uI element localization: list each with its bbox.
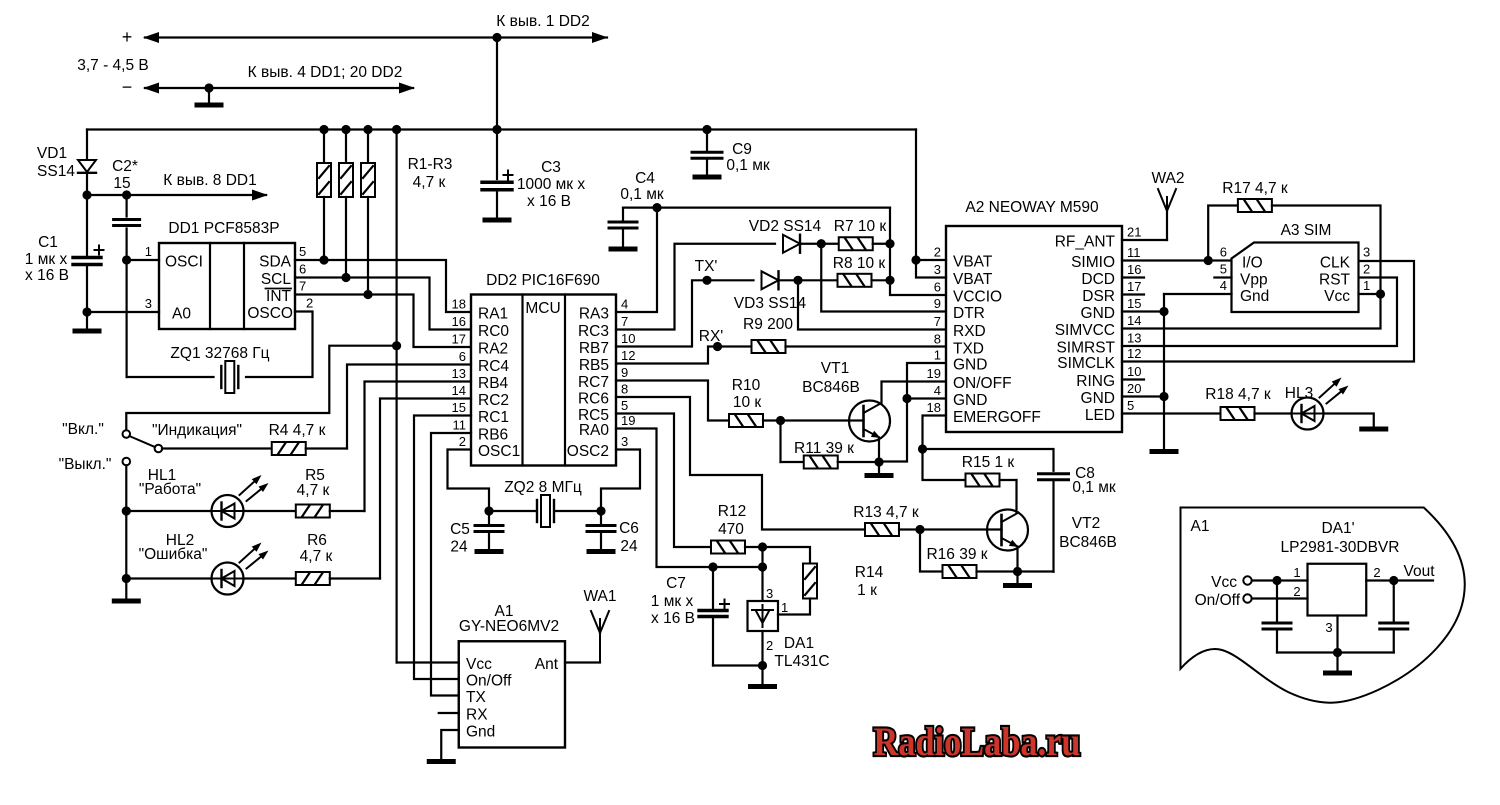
net SDA to DD2 RA1 [295, 255, 471, 312]
svg-text:C6: C6 [619, 520, 639, 537]
A1 pin texts [466, 656, 559, 741]
svg-text:1 мк х: 1 мк х [651, 593, 694, 610]
capacitor C9 [692, 130, 770, 178]
net SCL to DD2 RC0 [295, 273, 471, 330]
wire node to C8 [923, 449, 1054, 471]
A2 DCD stub [1122, 276, 1144, 278]
svg-text:INT: INT [266, 288, 292, 305]
svg-text:DD1 PCF8583P: DD1 PCF8583P [168, 220, 279, 237]
HL3 ground [1324, 414, 1386, 430]
resistor R2 [339, 130, 353, 278]
DD1 pin numbers [145, 244, 313, 311]
svg-text:3: 3 [1325, 620, 1332, 635]
net OSCO to ZQ1 [246, 312, 313, 378]
svg-text:10: 10 [1127, 364, 1141, 379]
svg-text:C9: C9 [732, 141, 752, 158]
wire SIMCLK to SIM CLK [1122, 261, 1414, 362]
resistor R8 [833, 255, 890, 287]
svg-text:VD3 SS14: VD3 SS14 [734, 295, 807, 312]
IC DD1 PCF8583P box [159, 220, 295, 329]
svg-text:Ant: Ant [535, 656, 559, 673]
inset Vcc terminal [1211, 574, 1307, 591]
svg-text:8: 8 [934, 332, 941, 347]
main VCC rail [87, 125, 916, 134]
svg-text:RA3: RA3 [579, 306, 609, 323]
svg-text:RST: RST [1319, 272, 1351, 289]
svg-text:6: 6 [459, 349, 466, 364]
svg-text:1: 1 [145, 244, 152, 259]
VT1 collector to ON/OFF [882, 382, 947, 404]
resistor R4 [162, 422, 347, 455]
inset input capacitor [1263, 581, 1291, 653]
wire RC7 to R10 [616, 381, 729, 421]
inset ground net [1277, 616, 1394, 674]
wire DD2 RC1 to A1 OnOff [414, 416, 471, 680]
svg-text:GND: GND [953, 392, 987, 409]
svg-text:RB6: RB6 [478, 427, 508, 444]
svg-text:13: 13 [452, 366, 466, 381]
VT2 collector to R15 [1015, 480, 1017, 513]
switch SA Vkl/Vykl [59, 421, 242, 473]
svg-text:1 мк х: 1 мк х [25, 251, 68, 268]
wire to switch Vkl [126, 346, 396, 430]
node TX' [695, 258, 718, 285]
svg-text:HL3: HL3 [1285, 385, 1313, 402]
svg-text:DD2 PIC16F690: DD2 PIC16F690 [486, 272, 600, 289]
svg-text:RF_ANT: RF_ANT [1055, 234, 1116, 251]
svg-text:R8 10 к: R8 10 к [833, 255, 886, 272]
svg-text:15: 15 [113, 175, 130, 192]
wire R5 to DD2 RB4 [365, 382, 472, 512]
A1 Gnd wire and ground [429, 730, 459, 762]
LED HL1 [126, 467, 268, 527]
svg-text:0,1 мк: 0,1 мк [1072, 479, 1116, 496]
power minus rail arrow to DD1 pin4 DD2 pin20 [122, 64, 415, 97]
IC DA1 TL431 box [748, 567, 830, 670]
svg-text:R1-R3: R1-R3 [408, 156, 453, 173]
svg-text:2: 2 [1363, 262, 1370, 277]
svg-text:2: 2 [1293, 584, 1300, 599]
svg-text:К выв. 1 DD2: К выв. 1 DD2 [496, 13, 590, 30]
svg-text:RC0: RC0 [478, 323, 509, 340]
wire OSCI to ZQ1 [127, 260, 214, 377]
DD1 pin3 A0 wire [87, 311, 159, 313]
A3 Vpp stub [1214, 276, 1231, 278]
node wire K vyv 8 DD1 [82, 172, 268, 201]
resistor R18 [1205, 386, 1291, 420]
DD1 pin1 OSCI wire [122, 255, 159, 264]
wire RA0 to C7 node [616, 429, 767, 572]
ground on minus rail [197, 83, 221, 105]
resistor R17 [1208, 180, 1380, 294]
resistor R13 [853, 504, 1001, 536]
wire SIM Gnd to GND riser [1164, 293, 1232, 295]
svg-text:EMERGOFF: EMERGOFF [953, 409, 1041, 426]
svg-text:R18 4,7 к: R18 4,7 к [1205, 386, 1271, 403]
crystal ZQ1 [170, 345, 269, 393]
svg-text:RC6: RC6 [578, 391, 609, 408]
transistor VT1 [802, 360, 890, 442]
svg-text:ZQ1 32768 Гц: ZQ1 32768 Гц [170, 345, 269, 362]
supply riser to switch and GPS Vcc [392, 130, 401, 663]
svg-text:R13 4,7 к: R13 4,7 к [853, 504, 919, 521]
wire OSC2 to ZQ2 [601, 450, 640, 512]
svg-text:A1: A1 [1191, 518, 1210, 535]
antenna WA1 [565, 588, 617, 663]
IC DD2 PIC16F690 box [471, 272, 616, 466]
svg-text:GND: GND [1081, 305, 1115, 322]
wire RC5 to R12 [616, 414, 711, 548]
svg-text:4: 4 [621, 297, 628, 312]
svg-text:RXD: RXD [953, 323, 986, 340]
svg-text:10 к: 10 к [733, 394, 762, 411]
svg-text:I/O: I/O [1242, 255, 1263, 272]
resistor R16 [920, 530, 1018, 579]
A3 pin texts [1240, 255, 1351, 306]
svg-text:BC846B: BC846B [802, 379, 860, 396]
svg-text:LED: LED [1085, 407, 1115, 424]
resistor R14 [803, 564, 884, 600]
wire RA3 riser [616, 208, 657, 312]
svg-text:Gnd: Gnd [466, 724, 495, 741]
capacitor C4 [609, 170, 664, 249]
svg-text:VBAT: VBAT [953, 254, 993, 271]
svg-text:К выв. 8 DD1: К выв. 8 DD1 [163, 172, 257, 189]
resistor R9 [743, 316, 946, 353]
svg-text:VT2: VT2 [1072, 515, 1100, 532]
svg-text:6: 6 [1220, 245, 1227, 260]
switch common rail [114, 465, 138, 601]
svg-text:C7: C7 [666, 575, 686, 592]
svg-text:CLK: CLK [1320, 255, 1351, 272]
svg-text:OSCI: OSCI [165, 254, 203, 271]
svg-text:0,1 мк: 0,1 мк [726, 157, 770, 174]
svg-text:C2*: C2* [112, 158, 138, 175]
wire LED pin to R18 [1122, 412, 1221, 414]
module A2 NEOWAY M590 box [946, 199, 1122, 432]
svg-text:RX: RX [466, 707, 488, 724]
svg-text:3: 3 [766, 586, 773, 601]
svg-text:1: 1 [1363, 278, 1370, 293]
wire RXD riser [798, 280, 946, 329]
svg-text:MCU: MCU [525, 300, 560, 317]
A3 pin numbers [1220, 245, 1370, 294]
svg-text:9: 9 [934, 296, 941, 311]
svg-text:VD1: VD1 [37, 145, 67, 162]
power plus rail arrow to DD2 pin 1 [122, 13, 608, 47]
wire VD3 to R8 [779, 276, 838, 285]
resistor R12 [711, 503, 767, 554]
svg-text:R14: R14 [855, 564, 884, 581]
svg-text:R16 39 к: R16 39 к [926, 546, 987, 563]
label battery voltage [77, 57, 149, 74]
A2 DSR stub [1122, 293, 1144, 295]
svg-text:4: 4 [934, 383, 941, 398]
svg-text:24: 24 [450, 539, 468, 556]
svg-text:х 16 В: х 16 В [527, 193, 571, 210]
svg-text:RB7: RB7 [579, 340, 609, 357]
svg-text:VD2 SS14: VD2 SS14 [749, 218, 822, 235]
wire DD2 RB6 to A1 TX [431, 433, 471, 696]
A2 RING stub [1122, 378, 1144, 380]
svg-text:RadioLaba.ru: RadioLaba.ru [874, 719, 1081, 764]
svg-text:DA1': DA1' [1321, 520, 1354, 537]
svg-text:C3: C3 [541, 159, 561, 176]
svg-text:VBAT: VBAT [953, 271, 993, 288]
IC DA1' LP2981 box [1281, 520, 1400, 616]
svg-text:ZQ2 8 МГц: ZQ2 8 МГц [504, 479, 582, 496]
svg-text:К выв. 4 DD1; 20 DD2: К выв. 4 DD1; 20 DD2 [248, 64, 403, 81]
wire DA1 pin2 ground [713, 631, 775, 687]
diode VD2 [749, 218, 822, 253]
svg-text:17: 17 [1127, 279, 1141, 294]
svg-text:"Работа": "Работа" [139, 481, 201, 498]
VT2 emitter ground [1006, 547, 1054, 586]
svg-text:0,1 мк: 0,1 мк [620, 186, 664, 203]
capacitor C2 [112, 158, 140, 260]
svg-text:18: 18 [927, 400, 941, 415]
svg-text:RC3: RC3 [578, 323, 609, 340]
svg-text:A3 SIM: A3 SIM [1281, 222, 1332, 239]
svg-text:RX': RX' [699, 328, 724, 345]
inset Vout wire [1366, 563, 1435, 585]
LED HL3 [1285, 378, 1349, 430]
svg-text:19: 19 [621, 413, 635, 428]
wire DA1 pin1 to R14 [778, 599, 810, 615]
svg-text:R12: R12 [718, 503, 746, 520]
capacitor C3 electrolytic [482, 130, 585, 221]
svg-text:C1: C1 [38, 234, 58, 251]
svg-text:3: 3 [1363, 245, 1370, 260]
wire rail to VD1 [86, 130, 88, 160]
svg-text:9: 9 [621, 365, 628, 380]
antenna WA2 [1122, 170, 1185, 240]
svg-text:5: 5 [1127, 398, 1134, 413]
svg-text:DA1: DA1 [784, 635, 814, 652]
svg-text:3: 3 [934, 262, 941, 277]
capacitor C6 [587, 511, 639, 555]
svg-text:SIMIO: SIMIO [1071, 254, 1115, 271]
svg-text:21: 21 [1127, 225, 1141, 240]
svg-text:24: 24 [620, 538, 638, 555]
svg-text:R11 39 к: R11 39 к [794, 440, 854, 457]
resistor R6 [244, 532, 381, 585]
inset frame A1 [1181, 508, 1465, 703]
svg-text:20: 20 [1127, 381, 1141, 396]
svg-text:C5: C5 [450, 521, 470, 538]
svg-text:14: 14 [1127, 313, 1141, 328]
diode VD1 [37, 145, 96, 180]
svg-text:"Выкл.": "Выкл." [59, 456, 112, 473]
wire R6 to DD2 RC2 [380, 399, 471, 579]
LED HL2 [126, 532, 268, 595]
capacitor C7 electrolytic [651, 567, 729, 666]
svg-text:"Вкл.": "Вкл." [62, 421, 104, 438]
DA1 pin numbers [766, 586, 788, 653]
svg-text:2: 2 [1373, 565, 1380, 580]
resistor R1 [317, 130, 331, 261]
wire EMERGOFF riser [918, 416, 946, 454]
DD2 pin texts and numbers [452, 297, 636, 461]
svg-text:SIMVCC: SIMVCC [1055, 322, 1115, 339]
svg-text:On/Off: On/Off [1195, 592, 1241, 609]
crystal ZQ2 [484, 479, 605, 527]
svg-text:1 к: 1 к [857, 582, 877, 599]
VCCIO riser [885, 208, 946, 295]
svg-text:5: 5 [621, 398, 628, 413]
svg-text:A2 NEOWAY M590: A2 NEOWAY M590 [965, 199, 1099, 216]
DD1 pin texts [165, 254, 293, 323]
svg-text:2: 2 [459, 434, 466, 449]
svg-text:19: 19 [927, 366, 941, 381]
wire RB5 to RX' [616, 347, 752, 364]
svg-text:4,7 к: 4,7 к [300, 548, 333, 565]
inset pin numbers [1293, 565, 1380, 635]
svg-text:13: 13 [1127, 331, 1141, 346]
capacitor C8 [1039, 465, 1116, 572]
svg-text:GND: GND [1081, 390, 1115, 407]
wire DTR riser [821, 244, 946, 312]
svg-text:4,7 к: 4,7 к [413, 174, 446, 191]
svg-text:A0: A0 [172, 306, 191, 323]
svg-text:RB4: RB4 [478, 375, 509, 392]
svg-text:11: 11 [453, 418, 467, 433]
svg-text:16: 16 [452, 314, 466, 329]
svg-text:1: 1 [1293, 565, 1300, 580]
svg-text:7: 7 [299, 279, 306, 294]
svg-text:11: 11 [1127, 245, 1141, 260]
svg-text:14: 14 [452, 383, 466, 398]
svg-text:OSC2: OSC2 [567, 443, 609, 460]
A2 pin texts and numbers [927, 225, 1142, 427]
svg-text:+: + [122, 27, 133, 47]
wire RC3 to VD2 [616, 244, 775, 330]
wire SIMVCC to SIM Vcc [1122, 294, 1381, 329]
svg-text:х 16 В: х 16 В [25, 267, 69, 284]
wire A1 Vcc [397, 661, 459, 663]
svg-text:Vcc: Vcc [1324, 288, 1350, 305]
svg-text:R15 1 к: R15 1 к [962, 454, 1015, 471]
svg-text:12: 12 [1127, 346, 1141, 361]
svg-text:Vcc: Vcc [466, 656, 492, 673]
svg-text:On/Off: On/Off [466, 673, 512, 690]
svg-text:R17 4,7 к: R17 4,7 к [1222, 180, 1288, 197]
svg-text:4: 4 [1220, 278, 1227, 293]
svg-text:VT1: VT1 [821, 360, 849, 377]
wire SIMRST to SIM RST [1122, 278, 1397, 347]
svg-text:VCCIO: VCCIO [953, 289, 1002, 306]
wire RC6 to R13 [616, 397, 865, 530]
svg-text:TX: TX [466, 689, 486, 706]
svg-text:Gnd: Gnd [1240, 288, 1269, 305]
svg-text:"Индикация": "Индикация" [152, 422, 242, 439]
svg-text:SS14: SS14 [37, 163, 75, 180]
VT1 emitter ground [867, 438, 891, 476]
resistor R7 [821, 218, 890, 250]
svg-text:GND: GND [953, 357, 987, 374]
wire rail to VBAT pins [911, 130, 946, 278]
svg-text:2: 2 [934, 245, 941, 260]
svg-text:Vout: Vout [1403, 563, 1435, 580]
resistor R3 [361, 130, 375, 295]
svg-text:1: 1 [934, 348, 941, 363]
svg-text:DSR: DSR [1082, 288, 1115, 305]
svg-text:3,7 - 4,5 В: 3,7 - 4,5 В [77, 57, 149, 74]
svg-text:DCD: DCD [1081, 271, 1115, 288]
wire OSC1 to ZQ2 [448, 450, 490, 512]
svg-text:Vpp: Vpp [1240, 272, 1268, 289]
resistor R15 [923, 449, 1017, 487]
resistor R10 [729, 377, 864, 427]
A2 GND pins to VT1 emitter [879, 363, 946, 462]
svg-text:SDA: SDA [259, 254, 292, 271]
svg-text:8: 8 [621, 382, 628, 397]
label R1-R3 [408, 156, 453, 191]
net C4-RA3-VCCIO [623, 203, 890, 212]
svg-text:TL431C: TL431C [774, 653, 829, 670]
capacitor C1 electrolytic [25, 195, 104, 312]
svg-text:17: 17 [452, 332, 466, 347]
wire VD1 to node K8DD1 [86, 173, 88, 195]
wire VD2 to R7 [800, 239, 826, 248]
GND net riser and ground [1122, 294, 1176, 452]
svg-text:1000 мк х: 1000 мк х [517, 176, 586, 193]
capacitor C5 [450, 511, 503, 556]
svg-text:RC4: RC4 [478, 358, 509, 375]
svg-text:2: 2 [306, 296, 313, 311]
ground under C1 [75, 307, 99, 331]
svg-text:GY-NEO6MV2: GY-NEO6MV2 [459, 618, 559, 635]
svg-text:WA1: WA1 [583, 588, 616, 605]
svg-text:R6: R6 [307, 532, 327, 549]
wire R4 to DD2 RC4 [347, 365, 471, 449]
svg-text:R7 10 к: R7 10 к [834, 218, 887, 235]
watermark RadioLaba.ru [874, 719, 1081, 764]
svg-text:R9 200: R9 200 [743, 316, 793, 333]
svg-text:LP2981-30DBVR: LP2981-30DBVR [1281, 539, 1400, 556]
svg-text:7: 7 [621, 314, 628, 329]
svg-text:18: 18 [452, 297, 466, 312]
resistor R5 [244, 467, 365, 518]
holder A3 SIM box [1232, 222, 1359, 312]
svg-text:470: 470 [718, 521, 744, 538]
svg-text:16: 16 [1127, 262, 1141, 277]
svg-text:RA0: RA0 [579, 422, 610, 439]
module A1 GY-NEO6MV2 box [459, 603, 565, 748]
svg-text:DTR: DTR [953, 305, 985, 322]
svg-text:4,7 к: 4,7 к [297, 482, 330, 499]
svg-text:RB5: RB5 [579, 357, 609, 374]
wire from plus arrow down to rail [492, 33, 501, 130]
svg-text:6: 6 [934, 280, 941, 295]
svg-text:RC2: RC2 [478, 392, 509, 409]
svg-text:RA2: RA2 [478, 341, 508, 358]
svg-text:OSC1: OSC1 [478, 443, 520, 460]
svg-text:SCL: SCL [261, 271, 292, 288]
wire SIM Vcc node [1359, 289, 1386, 298]
svg-text:−: − [122, 77, 133, 97]
svg-text:RC7: RC7 [578, 374, 609, 391]
svg-text:12: 12 [621, 348, 635, 363]
svg-text:SIMCLK: SIMCLK [1057, 355, 1115, 372]
diode VD3 [734, 271, 807, 312]
svg-text:"Ошибка": "Ошибка" [139, 546, 208, 563]
inset On/Off terminal [1195, 592, 1308, 609]
svg-text:RC1: RC1 [478, 409, 509, 426]
resistor R11 [781, 421, 880, 469]
svg-text:15: 15 [452, 400, 466, 415]
wire SIMIO to SIM [1122, 256, 1232, 265]
